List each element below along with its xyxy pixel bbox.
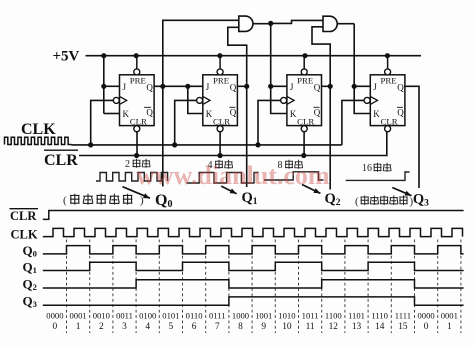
- junction: U4 J/K tie top: [352, 84, 357, 89]
- timing trace CLK: [43, 228, 463, 236]
- svg-text:0111: 0111: [209, 310, 226, 320]
- svg-text:J: J: [290, 82, 294, 92]
- junction: CLK to U3 clock: [255, 142, 260, 147]
- svg-text:16: 16: [362, 163, 372, 174]
- wire: CLK up to U1 clock: [91, 100, 114, 144]
- arrow to Q1: [221, 186, 236, 194]
- svg-text:PRE: PRE: [130, 75, 146, 85]
- node Q3: U4 Q output down to arrow: [404, 86, 419, 188]
- svg-text:3: 3: [122, 322, 127, 332]
- svg-text:1001: 1001: [255, 310, 272, 320]
- divide-by-8 mini waveform: [264, 172, 324, 180]
- svg-text:0: 0: [53, 322, 58, 332]
- arrow to Q0: [122, 187, 150, 199]
- junction: U3 CLR on CLR line: [301, 153, 306, 158]
- wire: U4 J input: [354, 85, 370, 87]
- svg-text:CLR: CLR: [213, 116, 230, 126]
- junction: +5V to U1 J/K tie: [101, 53, 106, 58]
- junction: U2 J/K tie: [185, 84, 190, 89]
- timing trace Q2: [43, 280, 464, 288]
- svg-text:Q: Q: [146, 108, 153, 118]
- svg-text:9: 9: [261, 322, 266, 332]
- svg-text:Q: Q: [314, 82, 321, 92]
- svg-text:CLK: CLK: [21, 121, 56, 138]
- svg-text:Q3: Q3: [23, 294, 37, 310]
- junction: rail to U3 PRE: [302, 53, 307, 58]
- wire: CLK corner up to U4 clock: [342, 100, 364, 144]
- svg-text:Q3: Q3: [413, 192, 429, 209]
- svg-text:7: 7: [215, 322, 220, 332]
- wire: U3 CLR down to CLR line: [303, 132, 305, 156]
- svg-text:12: 12: [329, 322, 339, 332]
- svg-text:2: 2: [99, 322, 104, 332]
- arrow to Q2: [302, 185, 320, 194]
- wire: U1 J input: [104, 85, 120, 87]
- junction: rail to U2 PRE: [217, 53, 222, 58]
- svg-text:PRE: PRE: [297, 75, 313, 85]
- node Q1: U2 Q output: [237, 85, 246, 87]
- node Q0: U1 Q output line to U2 J: [154, 85, 203, 87]
- svg-text:0100: 0100: [139, 310, 156, 320]
- svg-text:(: (: [63, 195, 67, 207]
- svg-text:K: K: [206, 109, 213, 119]
- junction: rail to U1 PRE: [134, 53, 139, 58]
- svg-text:1111: 1111: [395, 310, 411, 320]
- svg-text:15: 15: [398, 322, 408, 332]
- svg-text:13: 13: [352, 322, 362, 332]
- svg-text:CLR: CLR: [44, 152, 78, 169]
- JK flip-flop U4: [364, 56, 405, 132]
- svg-text:Q1: Q1: [23, 260, 37, 276]
- divide-by-16 mini waveform: [346, 172, 410, 180]
- wire: +5V down to U1 J/K: [103, 56, 105, 114]
- svg-text:Q: Q: [230, 108, 237, 118]
- junction: U2 CLR on CLR line: [218, 153, 223, 158]
- svg-text:Q: Q: [314, 108, 321, 118]
- timing diagram dashed column lines: [67, 240, 461, 334]
- wire: U4 K tie: [354, 86, 370, 113]
- svg-text:0000: 0000: [418, 310, 435, 320]
- svg-text:1: 1: [447, 322, 452, 332]
- svg-text:CLR: CLR: [381, 116, 398, 126]
- svg-text:1: 1: [76, 322, 81, 332]
- wire: U2 K tie: [188, 86, 203, 113]
- wire: CLK up to U2 clock: [175, 100, 197, 144]
- svg-text:0011: 0011: [116, 310, 133, 320]
- svg-text:CLR: CLR: [10, 209, 37, 223]
- node: U1 J: [101, 84, 106, 89]
- wire: CLR line: [79, 132, 387, 156]
- AND gate G1: [239, 16, 253, 31]
- junction Q1 branch: [244, 84, 249, 89]
- svg-text:0: 0: [424, 322, 429, 332]
- wire: Q1 down to output arrow: [246, 86, 248, 187]
- svg-text:1010: 1010: [278, 310, 295, 320]
- svg-text:Q2: Q2: [325, 191, 341, 208]
- wire: Q2 up to G2 input B: [312, 27, 330, 87]
- svg-text:Q2: Q2: [23, 277, 37, 293]
- timing trace CLR: [43, 211, 464, 220]
- junction Q2 branch: [328, 84, 333, 89]
- junction: CLK to U1 clock: [88, 142, 93, 147]
- junction: CLK to U2 clock: [172, 142, 177, 147]
- AND gate G2: [323, 16, 337, 31]
- svg-text:10: 10: [282, 322, 292, 332]
- timing trace Q0: [43, 246, 464, 254]
- svg-text:CLR: CLR: [297, 116, 314, 126]
- svg-text:Q: Q: [397, 82, 404, 92]
- binary code row: [46, 310, 458, 320]
- svg-text:6: 6: [192, 322, 197, 332]
- junction: G1 output branch: [268, 21, 273, 26]
- wire: G2 output down to U4 J: [353, 24, 355, 87]
- svg-text:0101: 0101: [162, 310, 179, 320]
- svg-text:CLR: CLR: [130, 116, 147, 126]
- svg-text:1101: 1101: [348, 310, 365, 320]
- svg-text:0001: 0001: [441, 310, 458, 320]
- svg-text:Q0: Q0: [155, 192, 172, 210]
- svg-text:0001: 0001: [70, 310, 87, 320]
- wire: Q2 down to output arrow: [329, 86, 331, 189]
- CLK pulse train icon: [5, 137, 72, 144]
- svg-text:Q0: Q0: [23, 243, 37, 259]
- svg-text:11: 11: [306, 322, 315, 332]
- timing trace Q1: [43, 262, 464, 270]
- JK flip-flop U2: [197, 56, 238, 132]
- svg-text:+5V: +5V: [53, 49, 80, 65]
- wire: Q0 up to G1 input A: [163, 20, 239, 86]
- svg-text:1011: 1011: [302, 310, 319, 320]
- junction: rail to U4 PRE: [385, 53, 390, 58]
- wire: U1 CLR down to CLR line: [136, 132, 138, 156]
- arrow to Q3: [392, 188, 411, 196]
- +5V rail: [86, 55, 422, 57]
- svg-text:0010: 0010: [93, 310, 110, 320]
- svg-text:J: J: [206, 82, 210, 92]
- wire: G1 output down to U3 J: [270, 23, 272, 86]
- junction: U1 CLR on CLR line: [134, 153, 139, 158]
- wire: U3 K tie: [271, 86, 287, 113]
- svg-text:8: 8: [238, 322, 243, 332]
- svg-text:K: K: [123, 109, 130, 119]
- svg-text:J: J: [373, 82, 377, 92]
- wire: G2 output: [338, 23, 354, 25]
- svg-text:www.dianlut.com: www.dianlut.com: [136, 161, 330, 190]
- count number row: [53, 322, 452, 332]
- wire: Q0 down to output arrow: [162, 86, 164, 186]
- divide-by-2 mini waveform: [96, 173, 168, 182]
- JK flip-flop U3: [281, 56, 322, 132]
- divide-by-4 mini waveform: [187, 173, 259, 184]
- svg-text:1000: 1000: [232, 310, 249, 320]
- JK flip-flop U1: [113, 56, 154, 132]
- svg-text:14: 14: [375, 322, 385, 332]
- svg-text:K: K: [373, 109, 380, 119]
- svg-text:Q: Q: [397, 108, 404, 118]
- svg-text:CLK: CLK: [11, 228, 38, 242]
- wire: U1 K input: [104, 113, 120, 115]
- svg-text:1100: 1100: [325, 310, 342, 320]
- timing trace Q3: [43, 297, 464, 305]
- junction Q0 branch: [160, 84, 165, 89]
- svg-text:4: 4: [145, 322, 150, 332]
- svg-text:Q1: Q1: [242, 190, 258, 207]
- svg-text:5: 5: [169, 322, 174, 332]
- svg-text:(: (: [355, 196, 359, 208]
- svg-text:PRE: PRE: [381, 75, 397, 85]
- svg-text:0110: 0110: [186, 310, 203, 320]
- svg-text:2: 2: [125, 159, 130, 170]
- svg-text:Q: Q: [230, 82, 237, 92]
- wire: G1 output: [253, 23, 271, 25]
- wire: U2 CLR down to CLR line: [219, 132, 221, 156]
- wire: G1 output to G2 input A: [271, 20, 323, 23]
- svg-text:0000: 0000: [46, 310, 63, 320]
- wire: U3 J input: [271, 85, 287, 87]
- node Q2: U3 Q output: [321, 85, 330, 87]
- wire: Q1 up to G1 input B: [228, 27, 247, 86]
- svg-text:1110: 1110: [371, 310, 388, 320]
- svg-text:J: J: [123, 82, 127, 92]
- wire: CLK line: [72, 144, 342, 146]
- junction: U3 J/K tie top: [268, 84, 273, 89]
- svg-text:PRE: PRE: [213, 75, 229, 85]
- wire: CLK up to U3 clock: [258, 100, 281, 144]
- svg-text:K: K: [290, 109, 297, 119]
- svg-text:Q: Q: [146, 82, 153, 92]
